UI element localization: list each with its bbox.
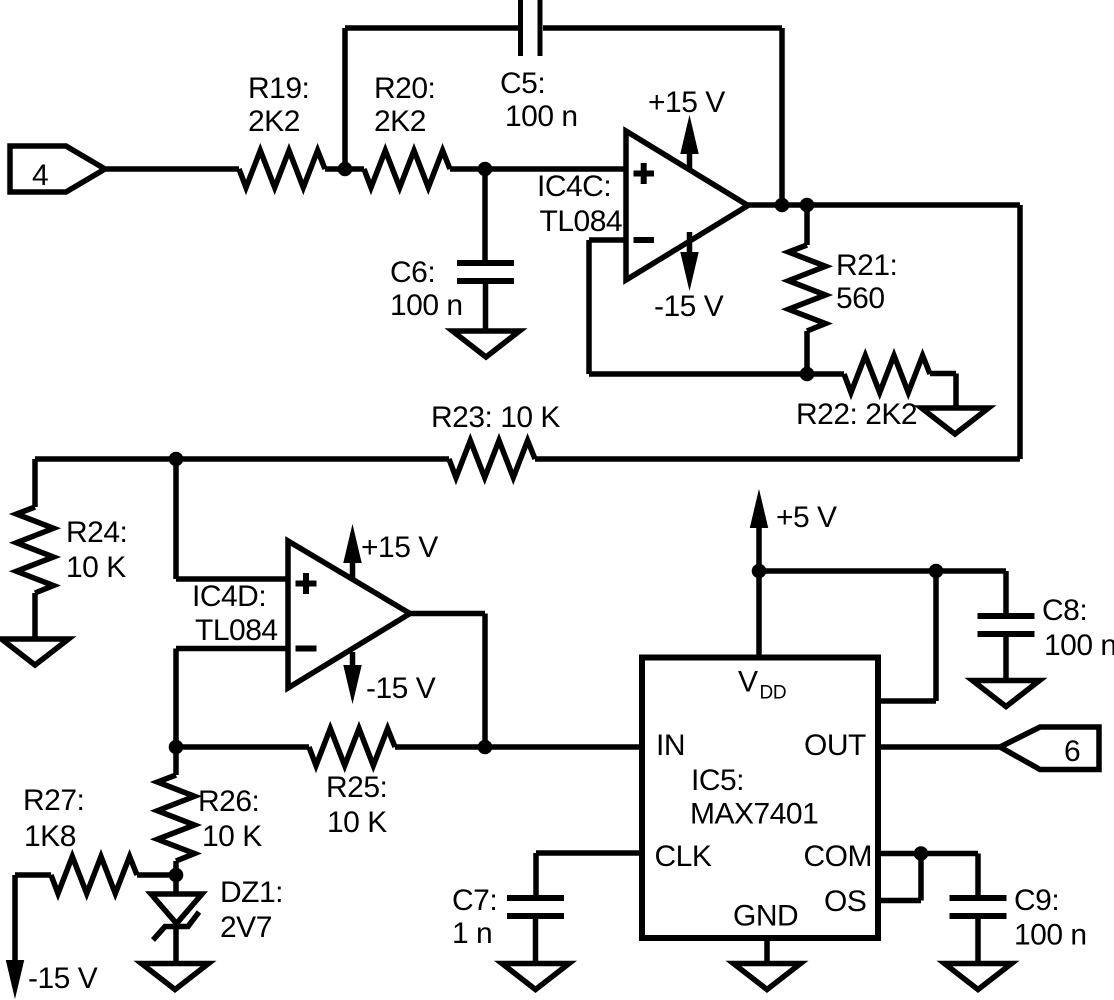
svg-text:R26:: R26: (198, 785, 259, 818)
svg-text:2V7: 2V7 (220, 911, 272, 944)
node G junction - input/R25/R26 (169, 740, 184, 755)
capacitor C8 (978, 616, 1035, 634)
wire output loop bottom to R23 (535, 456, 1020, 462)
wire R23 to node F and R24 (35, 456, 449, 462)
svg-text:C5:: C5: (500, 67, 545, 100)
wire R25 to node H (395, 744, 485, 750)
capacitor C7 (507, 898, 564, 916)
svg-text:100 n: 100 n (390, 289, 463, 322)
svg-text:OUT: OUT (804, 729, 866, 762)
label R24 value (66, 516, 127, 584)
label R26 value (198, 785, 262, 853)
label R23 value (431, 401, 560, 434)
wire node G to R25 (176, 744, 309, 750)
wire R21 to node E (804, 331, 810, 374)
svg-text:2K2: 2K2 (374, 105, 426, 138)
label +5 V (776, 501, 837, 534)
ground below IC5 GND (734, 964, 801, 990)
pin label GND (733, 900, 798, 933)
wire R19 to node A (325, 166, 345, 172)
label R25 value (326, 771, 387, 839)
wire IC4D - input to node G (176, 649, 288, 748)
label C7 value (452, 884, 497, 950)
svg-text:COM: COM (804, 840, 873, 873)
svg-text:IC5:: IC5: (691, 764, 744, 797)
svg-text:R22: 2K2: R22: 2K2 (796, 398, 917, 431)
label R19 value (248, 72, 309, 138)
svg-text:DD: DD (760, 683, 787, 704)
wire node A up to C5 row (342, 28, 348, 169)
wire R22 to ground corner (930, 374, 956, 409)
svg-text:10 K: 10 K (202, 820, 262, 853)
IC4C - input symbol (634, 237, 655, 243)
svg-text:R27:: R27: (23, 784, 84, 817)
label C5 value (500, 67, 578, 133)
IC4C +15V supply arrow (681, 117, 698, 171)
wire node I to DZ1 (173, 875, 179, 894)
ground below C9 (945, 964, 1012, 990)
label IC4C (537, 170, 622, 238)
wire C8 down from rail (1003, 571, 1009, 613)
resistor R21 (789, 245, 826, 331)
svg-text:-15 V: -15 V (28, 962, 98, 995)
svg-text:+15 V: +15 V (361, 531, 438, 564)
svg-text:OS: OS (824, 885, 866, 918)
ground below C8 (973, 681, 1040, 707)
wire R27 corner to zigzag (15, 872, 51, 878)
svg-text:4: 4 (32, 159, 48, 192)
svg-text:C7:: C7: (452, 884, 497, 917)
pin label OUT (804, 729, 866, 762)
wire IC4D output (410, 614, 485, 748)
IC4D +15V supply arrow (344, 526, 361, 578)
pin label OS (824, 885, 866, 918)
zener diode DZ1 (151, 894, 202, 940)
ground below C6 (453, 331, 520, 357)
wire node B down to C6 (482, 169, 488, 260)
label IC4D -15 V (366, 672, 436, 705)
pin label CLK (655, 840, 712, 873)
wire bypass down to IC5 right side (878, 571, 936, 701)
svg-text:TL084: TL084 (195, 614, 278, 647)
svg-text:IC4D:: IC4D: (192, 580, 266, 613)
label -15 V rail (28, 962, 98, 995)
wire VDD pin riser (756, 571, 762, 658)
svg-text:100 n: 100 n (505, 100, 578, 133)
pin label VDD (738, 666, 786, 704)
wire C9 to ground (975, 919, 981, 964)
wire output loop right side (1017, 205, 1023, 459)
capacitor C6 (457, 263, 514, 281)
IC4D -15V supply arrow (344, 652, 361, 702)
label R27 value (23, 784, 84, 853)
IC4C + input symbol (634, 163, 655, 184)
wire OUT pin to connector 6 (878, 744, 1000, 750)
wire node H to IC5 IN pin (485, 744, 642, 750)
svg-text:+5 V: +5 V (776, 501, 837, 534)
resistor R22 (844, 356, 930, 393)
wire R24 to ground (32, 593, 38, 639)
ground below R22 (922, 408, 989, 434)
svg-text:R25:: R25: (326, 771, 387, 804)
op-amp IC4C (626, 131, 748, 280)
wire connector 4 to R19 (105, 166, 239, 172)
wire node E to R22 (807, 371, 844, 377)
svg-text:-15 V: -15 V (366, 672, 436, 705)
capacitor C5 (521, 0, 541, 56)
IC IC5 MAX7401 box (642, 658, 878, 939)
node A junction R19/R20/C5 (338, 162, 353, 177)
wire COM pin (878, 854, 978, 896)
wire C5 right (543, 25, 782, 31)
label R20 value (374, 72, 435, 138)
svg-text:100 n: 100 n (1014, 919, 1087, 952)
label IC4C -15 V (654, 290, 724, 323)
node F junction R23 row/IC4D + input (169, 452, 184, 467)
resistor R19 (239, 151, 325, 188)
op-amp IC4D (288, 541, 410, 688)
resistor R20 (364, 151, 450, 188)
wire R26 to node I (173, 861, 179, 875)
wire node D to R21 (804, 205, 810, 245)
wire DZ1 to ground (173, 927, 179, 964)
output connector 6 (1000, 727, 1099, 770)
svg-text:GND: GND (733, 900, 798, 933)
ground below DZ1 (142, 964, 209, 990)
resistor R25 (309, 729, 395, 766)
node E junction R21/R22/feedback (800, 367, 815, 382)
wire GND pin (764, 938, 770, 964)
label IC5 (690, 764, 818, 831)
label DZ1 value (220, 876, 283, 944)
-15V supply arrow bottom left (6, 875, 23, 997)
label C8 value (1042, 594, 1114, 662)
pin label IN (656, 729, 685, 762)
input connector 4 (10, 146, 105, 192)
node H junction IC4D output/IN (478, 740, 493, 755)
svg-text:V: V (738, 666, 758, 699)
wire C5 left (345, 25, 518, 31)
wire OS pin riser (878, 854, 921, 901)
svg-text:IC4C:: IC4C: (537, 170, 611, 203)
wire R20 to node B (450, 166, 485, 172)
node D junction output/R21 (800, 198, 815, 213)
ground below C7 (502, 964, 569, 990)
wire IC4C output (748, 202, 1020, 208)
svg-text:C6:: C6: (390, 256, 435, 289)
svg-text:1 n: 1 n (452, 917, 492, 950)
svg-text:MAX7401: MAX7401 (690, 798, 818, 831)
wire node F to IC4D + input (176, 459, 288, 579)
svg-text:10 K: 10 K (327, 806, 387, 839)
svg-text:DZ1:: DZ1: (220, 876, 283, 909)
node B junction R20/C6/op-amp (478, 162, 493, 177)
resistor R23 (449, 441, 535, 478)
svg-text:2K2: 2K2 (248, 105, 300, 138)
svg-text:CLK: CLK (655, 840, 712, 873)
ground below R24 (2, 639, 69, 665)
label IC4D (192, 580, 278, 647)
svg-text:R24:: R24: (66, 516, 127, 549)
label IC4D +15 V (361, 531, 438, 564)
wire C5 down to op-amp output (779, 28, 785, 205)
wire R27 to node I (137, 872, 176, 878)
resistor R24 (17, 507, 54, 593)
IC4C -15V supply arrow (681, 232, 698, 289)
wire C6 to ground (483, 284, 489, 331)
svg-text:10 K: 10 K (66, 551, 126, 584)
node K junction bypass (929, 564, 944, 579)
pin label COM (804, 840, 873, 873)
wire C7 to ground (533, 919, 539, 964)
wire R24 top (32, 459, 38, 507)
node J junction +5V/VDD (752, 564, 767, 579)
wire IC4C feedback from - input (589, 240, 807, 374)
svg-text:C9:: C9: (1014, 884, 1059, 917)
svg-text:560: 560 (836, 282, 885, 315)
resistor R26 (158, 775, 195, 861)
svg-text:+15 V: +15 V (648, 86, 725, 119)
svg-text:R21:: R21: (836, 249, 897, 282)
label IC4C +15 V (648, 86, 725, 119)
svg-text:-15 V: -15 V (654, 290, 724, 323)
svg-text:6: 6 (1064, 735, 1080, 768)
node L junction COM/OS (914, 846, 929, 861)
label R22 value (796, 398, 917, 431)
node C junction output/C5 (775, 198, 790, 213)
label C9 value (1014, 884, 1087, 952)
svg-text:R20:: R20: (374, 72, 435, 105)
svg-text:IN: IN (656, 729, 685, 762)
svg-text:R23: 10 K: R23: 10 K (431, 401, 560, 434)
+5V supply arrow (750, 491, 767, 571)
wire CLK pin (536, 853, 642, 895)
IC4D - input symbol (296, 646, 317, 652)
svg-text:R19:: R19: (248, 72, 309, 105)
node I junction R26/R27/DZ1 (169, 868, 184, 883)
resistor R27 (51, 857, 137, 894)
wire C8 to ground (1003, 637, 1009, 681)
wire node B to IC4C + input (485, 166, 626, 172)
svg-text:C8:: C8: (1042, 594, 1087, 627)
label R21 value (836, 249, 897, 315)
IC4D + input symbol (296, 573, 317, 594)
svg-text:1K8: 1K8 (24, 820, 76, 853)
capacitor C9 (950, 898, 1007, 916)
wire node A to R20 (345, 166, 364, 172)
wire node G to R26 (173, 747, 179, 775)
wire +5V rail to C8 (759, 568, 1006, 574)
svg-text:100 n: 100 n (1044, 629, 1114, 662)
label C6 value (390, 256, 463, 322)
svg-text:TL084: TL084 (540, 205, 623, 238)
